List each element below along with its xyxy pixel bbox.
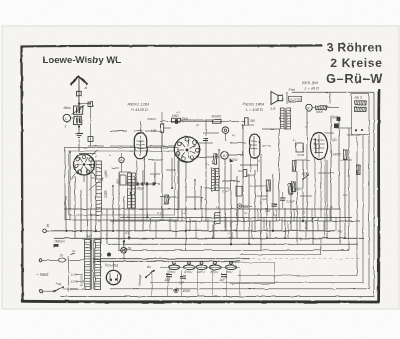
svg-text:ERKU: ERKU bbox=[197, 270, 206, 274]
wire bbox=[134, 130, 142, 132]
capacitor 0.1uF bbox=[280, 197, 286, 199]
junction bbox=[242, 124, 244, 126]
wire bbox=[186, 196, 203, 198]
wire bbox=[269, 221, 271, 238]
junction bbox=[194, 208, 196, 210]
power transformer NT winding bbox=[85, 240, 91, 290]
svg-text:A: A bbox=[83, 85, 87, 90]
junction dot detector bbox=[130, 192, 133, 195]
wire bbox=[286, 92, 288, 104]
wire bbox=[201, 209, 203, 221]
trimmer across L1 bbox=[91, 160, 96, 162]
wire bbox=[329, 92, 331, 104]
wire bbox=[123, 196, 125, 244]
bus wire y250 bbox=[118, 249, 349, 251]
smoothing resistor ERKU bbox=[196, 265, 207, 270]
svg-text:E: E bbox=[47, 223, 50, 228]
svg-text:0,1μF: 0,1μF bbox=[222, 189, 230, 193]
wire bbox=[246, 124, 254, 126]
wire bbox=[146, 186, 148, 218]
ground antenna circuit bbox=[75, 133, 83, 135]
switch blob V4 bbox=[230, 159, 234, 163]
wire bbox=[106, 209, 108, 244]
wire bbox=[257, 209, 259, 221]
smoothing resistor TKU bbox=[225, 265, 236, 270]
wire bbox=[197, 270, 199, 297]
svg-text:La: La bbox=[271, 107, 275, 111]
junction bbox=[284, 237, 286, 239]
wire bbox=[155, 221, 157, 238]
junction bbox=[90, 214, 92, 216]
antenna A bbox=[71, 77, 88, 85]
svg-text:S: S bbox=[127, 215, 129, 219]
wire bbox=[203, 187, 212, 189]
wire bbox=[290, 194, 292, 232]
wire bbox=[305, 221, 307, 238]
wire bbox=[260, 154, 262, 250]
tube V2 top cap wire bbox=[140, 121, 142, 133]
tube V1 pin 3 bbox=[91, 164, 94, 167]
wire bbox=[287, 221, 289, 238]
junction bbox=[65, 230, 67, 232]
wire bbox=[134, 178, 136, 231]
switch K2 bbox=[306, 104, 312, 110]
tube V5 leads bbox=[314, 159, 316, 218]
capacitor 2uF block 2 bbox=[180, 275, 186, 277]
coil IF transformer a bbox=[212, 169, 215, 191]
wire bbox=[222, 180, 240, 182]
junction bbox=[128, 237, 130, 239]
tube V2 grid bbox=[140, 136, 142, 156]
wire bbox=[329, 209, 331, 221]
wire bbox=[142, 170, 144, 231]
wire bbox=[278, 129, 280, 221]
wire bbox=[154, 162, 156, 184]
wire bbox=[263, 218, 265, 232]
svg-text:SL: SL bbox=[128, 247, 132, 251]
decoupling block capacitor 2 bbox=[337, 117, 341, 121]
loudspeaker La bbox=[271, 92, 278, 105]
wire bbox=[69, 152, 71, 221]
wire bbox=[338, 119, 340, 209]
svg-text:BTKU: BTKU bbox=[211, 270, 220, 274]
wire bbox=[299, 218, 301, 232]
dial lamp SL bbox=[121, 248, 127, 254]
border frame left bbox=[22, 46, 23, 302]
wire bbox=[171, 158, 173, 188]
tube V1 socket bbox=[74, 154, 95, 175]
wire bbox=[175, 221, 177, 238]
svg-text:6Ω: 6Ω bbox=[333, 138, 338, 142]
return wire loop outer bbox=[60, 92, 374, 296]
junction bbox=[290, 193, 292, 195]
coil L2 coupling winding a bbox=[128, 173, 132, 208]
grid resistor right b bbox=[356, 165, 360, 175]
wire bbox=[312, 218, 314, 244]
svg-text:5000: 5000 bbox=[316, 110, 323, 114]
tube V1 pin 2 bbox=[89, 158, 92, 161]
junction bbox=[344, 237, 346, 239]
bus wire y244 bbox=[108, 243, 358, 245]
svg-text:300Ω: 300Ω bbox=[104, 190, 108, 198]
mains terminal 2 bbox=[39, 290, 42, 293]
border frame right bbox=[377, 89, 380, 302]
resistor 400 kohm bbox=[213, 119, 222, 123]
blocking capacitor blob bbox=[175, 119, 178, 124]
junction bus238 bbox=[128, 237, 130, 239]
wire bbox=[150, 173, 160, 175]
wire bbox=[326, 160, 328, 238]
fuse Si bbox=[59, 259, 66, 263]
svg-text:A: A bbox=[223, 154, 226, 158]
svg-text:110 220V: 110 220V bbox=[80, 275, 84, 286]
wire bbox=[162, 209, 164, 221]
wire bbox=[95, 215, 97, 231]
tube V1 pin 6 bbox=[75, 165, 78, 168]
wire bbox=[149, 218, 151, 232]
junction bbox=[266, 237, 268, 239]
bus wire y220 bbox=[110, 220, 360, 222]
wire bbox=[317, 218, 319, 232]
capacitor anode V3 bbox=[245, 118, 249, 125]
junction bbox=[302, 220, 304, 222]
resistor 5000 ohm bbox=[316, 106, 327, 110]
junction E bus 3 bbox=[272, 230, 274, 232]
bus wire shield bottom bbox=[120, 217, 352, 219]
wire anode line y121 bbox=[160, 120, 246, 122]
svg-text:80A: 80A bbox=[238, 169, 243, 173]
resistor right mid bbox=[292, 161, 296, 172]
tube V3 center bbox=[186, 148, 189, 151]
tube V3 spoke 6 bbox=[177, 149, 184, 151]
capacitor grid V2 bbox=[161, 124, 164, 132]
grid box V5 bbox=[296, 143, 303, 152]
svg-text:13000: 13000 bbox=[332, 153, 341, 157]
tube V3 spoke 7 bbox=[181, 142, 185, 147]
tube V2 cathode lead bbox=[144, 158, 146, 184]
wire bbox=[243, 218, 245, 232]
wire bbox=[219, 187, 230, 189]
svg-text:3 Röhren: 3 Röhren bbox=[326, 41, 382, 55]
series capacitor 2 bbox=[141, 182, 143, 185]
output transformer primary bbox=[280, 108, 284, 129]
wire bbox=[180, 270, 182, 297]
wire bbox=[231, 221, 233, 238]
series capacitor 4 bbox=[153, 182, 155, 185]
junction dots antenna bbox=[78, 102, 80, 104]
tube V2 anode lead bbox=[136, 158, 138, 184]
wire bbox=[224, 159, 226, 231]
wire bbox=[262, 128, 287, 130]
svg-text:ETKU: ETKU bbox=[185, 270, 194, 274]
svg-text:N 4128 D: N 4128 D bbox=[131, 107, 148, 112]
wire bbox=[272, 174, 274, 231]
junction bbox=[171, 187, 173, 189]
svg-text:25: 25 bbox=[301, 211, 306, 215]
wire bbox=[330, 118, 332, 221]
shield box inner bbox=[69, 151, 175, 215]
wire bbox=[335, 218, 337, 232]
node 4000 bbox=[175, 289, 178, 292]
junction bbox=[266, 190, 268, 192]
tube V4 leads bbox=[250, 156, 252, 172]
component box right of socket bbox=[236, 186, 242, 196]
wire bbox=[112, 167, 119, 169]
svg-text:100Ω: 100Ω bbox=[230, 158, 239, 162]
wire bbox=[198, 156, 219, 158]
wire bbox=[226, 154, 244, 156]
svg-text:2μF: 2μF bbox=[178, 281, 186, 285]
tube V3 pin 3 bbox=[195, 148, 199, 152]
wire bbox=[119, 171, 131, 173]
junction bbox=[69, 151, 71, 153]
wire bbox=[300, 195, 312, 197]
junction bbox=[194, 179, 196, 181]
svg-text:Loewe-Wisby WL: Loewe-Wisby WL bbox=[43, 55, 122, 66]
wire bbox=[112, 186, 114, 231]
wire bbox=[256, 195, 268, 197]
wire bbox=[311, 209, 313, 221]
svg-text:2μF: 2μF bbox=[264, 209, 272, 213]
wire bbox=[306, 111, 308, 231]
svg-text:GWB: GWB bbox=[297, 153, 304, 157]
wire bbox=[79, 153, 96, 155]
border frame top bbox=[21, 45, 322, 46]
svg-text:W₁: W₁ bbox=[98, 219, 102, 223]
capacitor chain 0.1uF bbox=[243, 170, 247, 177]
wire bbox=[348, 128, 350, 221]
svg-text:0,2: 0,2 bbox=[125, 231, 130, 235]
wire antenna branch column bbox=[90, 104, 92, 147]
junction bbox=[230, 243, 232, 245]
tube V3 spoke 2 bbox=[190, 145, 196, 148]
svg-text:RGN354: RGN354 bbox=[105, 264, 118, 268]
wire bbox=[166, 169, 176, 171]
resistor 1 Mohm bbox=[172, 118, 181, 122]
tube V3 spoke 4 bbox=[188, 152, 190, 158]
resistor right low bbox=[291, 181, 295, 191]
svg-text:2μF: 2μF bbox=[219, 278, 227, 282]
resistor 100 ohm vertical bbox=[213, 154, 216, 165]
coupling loop wire bbox=[230, 263, 275, 284]
wire bbox=[197, 142, 213, 144]
tube V1 spoke 4 bbox=[80, 167, 83, 172]
wire bbox=[151, 270, 153, 297]
svg-text:0,3: 0,3 bbox=[157, 211, 162, 215]
junction bbox=[344, 159, 346, 161]
wire bbox=[80, 190, 82, 231]
wire bbox=[189, 218, 191, 232]
return wire corner bus 250 bbox=[348, 221, 350, 250]
svg-text:700kΩ: 700kΩ bbox=[147, 117, 157, 121]
return wire loop 4 bbox=[238, 135, 357, 276]
tube V4 grid bbox=[253, 136, 255, 156]
wire bbox=[100, 215, 102, 244]
tube V3 pin 4 bbox=[190, 156, 194, 160]
svg-text:Lg: Lg bbox=[232, 133, 236, 137]
wire bbox=[164, 127, 171, 129]
wire bbox=[295, 159, 310, 161]
wire bbox=[225, 218, 227, 232]
junction bbox=[112, 185, 114, 187]
tube V1 spoke 2 bbox=[87, 163, 93, 165]
smoothing resistor TKU bbox=[168, 265, 179, 270]
tube V3 spoke 3 bbox=[190, 151, 196, 154]
wire bbox=[181, 119, 214, 121]
switch K1 bbox=[222, 127, 229, 134]
svg-text:L = 108 D: L = 108 D bbox=[246, 107, 263, 112]
capacitor at V3 top bbox=[203, 138, 208, 140]
rear panel box bbox=[352, 94, 370, 135]
resistor mains top bbox=[54, 244, 59, 247]
svg-text:TKU: TKU bbox=[170, 270, 177, 274]
wire bbox=[181, 209, 183, 221]
wire bbox=[212, 270, 214, 297]
svg-text:100: 100 bbox=[250, 119, 256, 123]
svg-text:Si: Si bbox=[60, 254, 63, 258]
field supply label GL 2V 381 bbox=[289, 96, 302, 101]
svg-text:400kΩ: 400kΩ bbox=[212, 115, 222, 119]
wire bbox=[128, 183, 160, 185]
wire bbox=[284, 208, 286, 238]
svg-text:80A: 80A bbox=[243, 205, 248, 209]
wire bbox=[213, 221, 215, 238]
wire bbox=[242, 125, 244, 221]
return wire corner x321 bbox=[240, 238, 321, 254]
power transformer core bbox=[91, 240, 93, 290]
tube V1 socket leads bbox=[71, 173, 76, 180]
wire bbox=[275, 209, 277, 221]
tube V5 envelope bbox=[310, 133, 327, 160]
wire bbox=[312, 107, 315, 109]
svg-text:3: 3 bbox=[65, 125, 67, 129]
tube V3 pin 1 bbox=[185, 138, 189, 142]
tube V5 grid bbox=[318, 135, 320, 158]
svg-text:NT: NT bbox=[87, 234, 93, 239]
capacitor 2uF block 1 bbox=[166, 274, 172, 276]
wire bbox=[240, 164, 258, 166]
wire bbox=[344, 160, 346, 239]
coil IF transformer b bbox=[216, 169, 219, 191]
wire bbox=[207, 218, 209, 232]
svg-text:GL2V381: GL2V381 bbox=[289, 97, 302, 101]
junction bbox=[248, 243, 250, 245]
tube V3 spoke 1 bbox=[188, 140, 189, 147]
svg-text:TKU: TKU bbox=[227, 270, 234, 274]
svg-text:0,1: 0,1 bbox=[343, 193, 348, 197]
svg-text:1,2: 1,2 bbox=[182, 211, 187, 215]
wire bbox=[340, 127, 352, 129]
wire bbox=[145, 130, 160, 132]
wire bbox=[90, 215, 92, 250]
grid resistor right a bbox=[343, 150, 347, 160]
tube V3 pin 5 bbox=[181, 157, 185, 161]
wire bbox=[74, 176, 76, 238]
wire V2 grid left bbox=[110, 145, 134, 147]
component box AVG bbox=[120, 175, 126, 185]
voltage tap wire bbox=[68, 256, 70, 292]
wire bbox=[218, 150, 220, 209]
wire bbox=[236, 176, 238, 238]
power transformer secondary winding bbox=[95, 240, 101, 290]
junction bbox=[134, 177, 136, 179]
wire bbox=[293, 209, 295, 221]
svg-text:4000: 4000 bbox=[183, 289, 190, 293]
tube V1 spoke 6 bbox=[80, 158, 83, 163]
border frame bottom bbox=[22, 300, 380, 304]
wire bbox=[178, 160, 180, 209]
tube V3 pin 6 bbox=[176, 152, 180, 156]
coil oscillator small bbox=[215, 213, 221, 224]
wire bbox=[250, 185, 266, 187]
series capacitor 3 bbox=[146, 182, 148, 185]
junction bus221 bbox=[302, 220, 304, 222]
wire bbox=[237, 209, 239, 221]
wire bbox=[323, 221, 325, 238]
wire bbox=[118, 172, 120, 250]
switch Au bottom bbox=[146, 271, 154, 277]
junction E bus 1 bbox=[95, 230, 97, 232]
tube V1 spoke 5 bbox=[76, 164, 82, 166]
tube V3 spoke 5 bbox=[181, 152, 185, 157]
earth bus wire bbox=[46, 230, 335, 232]
tube V3 pin 7 bbox=[177, 142, 181, 146]
wire bbox=[219, 209, 221, 221]
wire bbox=[266, 191, 268, 238]
svg-text:G–Rü–W: G–Rü–W bbox=[326, 71, 383, 86]
mains terminal 1 bbox=[39, 259, 42, 262]
wire bbox=[203, 132, 219, 134]
tube V3 socket bbox=[174, 137, 199, 162]
wire bbox=[128, 209, 130, 238]
return wire loop 2 bbox=[110, 134, 369, 289]
wire bbox=[205, 138, 207, 222]
tube V1 spoke 3 bbox=[85, 167, 88, 172]
svg-text:1MΩ: 1MΩ bbox=[172, 114, 180, 118]
smoothing resistor BTKU bbox=[209, 265, 220, 270]
resistor antenna branch bbox=[88, 137, 93, 142]
meter A2 bbox=[221, 152, 229, 160]
grommet junction bbox=[107, 253, 111, 257]
capacitor 2uF right bbox=[271, 203, 277, 205]
tube V1 spoke 1 bbox=[85, 157, 88, 162]
wire bbox=[194, 180, 196, 209]
wire bbox=[110, 130, 127, 132]
wire bbox=[347, 134, 361, 136]
wire bbox=[248, 174, 250, 244]
wire bbox=[149, 145, 176, 147]
junction bbox=[312, 217, 314, 219]
junction bbox=[218, 149, 220, 151]
bus wire y209 bbox=[64, 208, 340, 210]
wire bbox=[230, 164, 232, 244]
series capacitor antenna branch bbox=[88, 102, 93, 107]
wire bbox=[65, 196, 67, 231]
wire bbox=[225, 270, 227, 297]
terminal E bbox=[43, 229, 47, 233]
wire bbox=[340, 159, 352, 161]
wire bbox=[318, 172, 334, 174]
mains switch Aus bbox=[54, 287, 63, 291]
wire bbox=[148, 159, 163, 161]
junction bbox=[95, 230, 97, 232]
wire top bus right bbox=[292, 91, 374, 93]
tube V1 grid cap wire bbox=[92, 150, 98, 155]
junction bbox=[212, 237, 214, 239]
tube V1 pin 5 bbox=[78, 170, 81, 173]
wire y121 drop at x206 bbox=[205, 121, 207, 136]
tube V4 envelope bbox=[250, 134, 260, 158]
